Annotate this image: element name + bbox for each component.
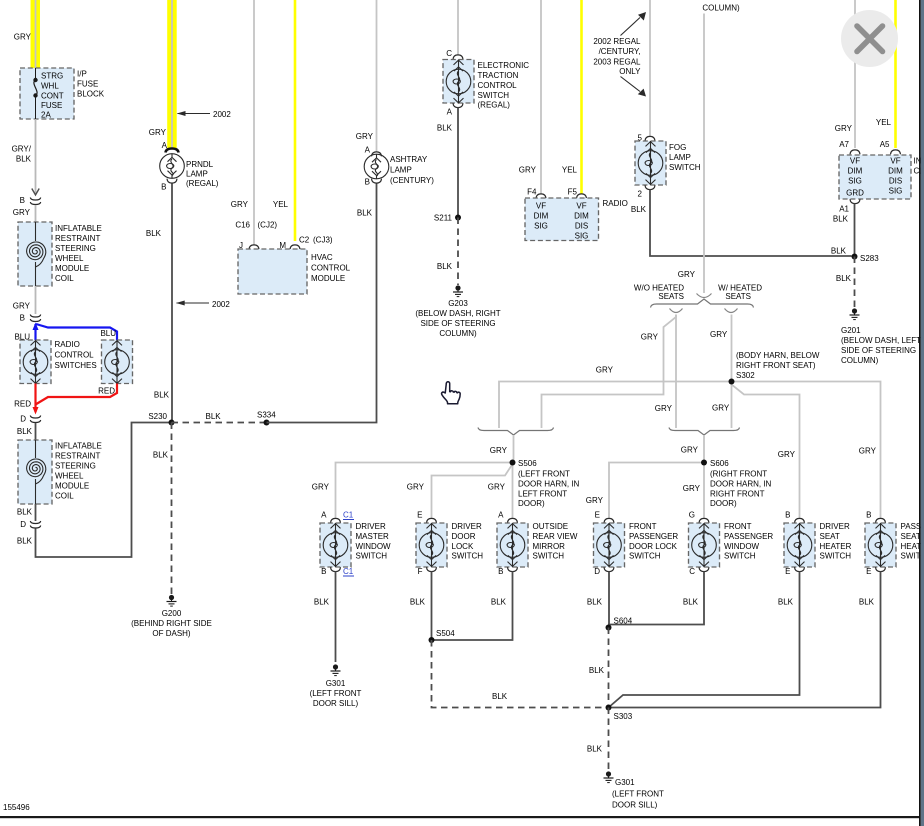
wire BLK fog switch to S283 [650, 190, 852, 257]
svg-text:G301: G301 [326, 679, 346, 688]
svg-text:BLK: BLK [357, 209, 373, 218]
svg-text:C: C [689, 567, 695, 576]
svg-text:B: B [866, 511, 871, 520]
wire GRY from top [457, 0, 459, 55]
wire GRY gather1 to S506 [513, 435, 515, 463]
svg-text:GRY: GRY [681, 446, 699, 455]
wire BLK S303 to passenger seat heater switch [609, 572, 881, 708]
svg-text:BLK: BLK [587, 598, 603, 607]
svg-text:SIDE OF STEERING: SIDE OF STEERING [420, 319, 495, 328]
wire GRY w/ heated to S302 [731, 315, 733, 382]
wire GRY S506 to mirror switch [512, 463, 514, 520]
electronic traction control switch (REGAL) [443, 60, 474, 104]
splice gather brace above S606 [669, 428, 740, 436]
branch cup W/O [670, 309, 683, 313]
svg-text:SWITCH: SWITCH [533, 552, 565, 561]
wire into coil [35, 205, 37, 222]
svg-text:BLK: BLK [859, 598, 875, 607]
svg-text:(CJ3): (CJ3) [313, 236, 333, 245]
node S506 [510, 460, 516, 466]
svg-text:WHEEL: WHEEL [55, 472, 84, 481]
inflatable restraint steering wheel module coil (lower) [18, 440, 52, 504]
svg-text:BLK: BLK [154, 391, 170, 400]
svg-text:E: E [866, 567, 871, 576]
svg-text:BLK: BLK [836, 274, 852, 283]
svg-text:155496: 155496 [3, 803, 30, 812]
right scrollbar strip [921, 0, 924, 826]
svg-text:BLK: BLK [437, 124, 453, 133]
svg-text:SWITCH: SWITCH [820, 552, 852, 561]
svg-text:SIG: SIG [575, 232, 589, 241]
wire BLK master window switch to G301 [335, 572, 337, 663]
svg-text:LAMP: LAMP [669, 153, 691, 162]
svg-text:CONTROL: CONTROL [55, 351, 95, 360]
svg-text:FUSE: FUSE [41, 101, 62, 110]
svg-text:DIM: DIM [574, 212, 589, 221]
svg-text:LAMP: LAMP [186, 170, 208, 179]
svg-text:S334: S334 [257, 411, 276, 420]
svg-text:SWITCH: SWITCH [452, 552, 484, 561]
svg-text:DRIVER: DRIVER [356, 522, 386, 531]
svg-text:GRY: GRY [13, 208, 31, 217]
svg-text:VF: VF [576, 202, 586, 211]
ashtray lamp (CENTURY) [364, 154, 389, 179]
wire GRY highlighted yellow from top [167, 0, 177, 149]
ground G201 [850, 308, 860, 319]
wire GRY from top to seats split [703, 14, 705, 294]
svg-text:(LEFT FRONT: (LEFT FRONT [518, 470, 570, 479]
svg-text:G301: G301 [615, 778, 635, 787]
svg-text:BLOCK: BLOCK [77, 90, 105, 99]
svg-text:BLK: BLK [410, 598, 426, 607]
svg-text:2002 REGAL: 2002 REGAL [593, 37, 641, 46]
wire BLK S303 to driver seat heater switch [609, 572, 800, 708]
wire BLK A1 to S283 [854, 204, 856, 257]
radio box [525, 198, 599, 241]
instrument cluster box [839, 155, 911, 199]
radio control switch 1 [20, 340, 51, 384]
2002 model arrow [178, 113, 211, 115]
svg-text:GRY: GRY [641, 333, 659, 342]
svg-text:GRY: GRY [586, 496, 604, 505]
svg-text:DIS: DIS [575, 222, 588, 231]
close button [841, 10, 898, 67]
svg-text:COIL: COIL [55, 492, 74, 501]
svg-text:I/P: I/P [77, 70, 87, 79]
svg-text:GRY: GRY [312, 483, 330, 492]
wire BLK mirror switch to S504 [432, 572, 513, 641]
wire GRY S302 to driver seat heater [732, 382, 800, 520]
wire GRY S302 to passenger seat heater [732, 382, 881, 520]
splice split brace [651, 299, 754, 308]
svg-text:GRY: GRY [859, 447, 877, 456]
wire GRY S606 to front passenger door lock switch [609, 463, 704, 520]
wire GRY from top to radio F4 [540, 0, 542, 194]
svg-text:SWITCH: SWITCH [724, 552, 756, 561]
terminal A black cap [166, 149, 179, 153]
svg-text:BLK: BLK [833, 215, 849, 224]
svg-text:G200: G200 [162, 609, 182, 618]
svg-text:COLUMN): COLUMN) [702, 4, 740, 13]
svg-text:COLUMN): COLUMN) [841, 356, 879, 365]
svg-text:(LEFT FRONT: (LEFT FRONT [310, 689, 362, 698]
svg-text:COLUMN): COLUMN) [439, 329, 477, 338]
svg-text:S302: S302 [736, 371, 755, 380]
svg-text:S504: S504 [436, 629, 455, 638]
pin A1 GRD [850, 199, 860, 203]
svg-text:2A: 2A [41, 111, 51, 120]
svg-text:VF: VF [850, 157, 860, 166]
svg-text:STRG: STRG [41, 72, 63, 81]
svg-text:BLK: BLK [17, 427, 33, 436]
svg-text:RIGHT FRONT SEAT): RIGHT FRONT SEAT) [736, 361, 816, 370]
svg-text:PRNDL: PRNDL [186, 160, 214, 169]
svg-text:RESTRAINT: RESTRAINT [55, 452, 100, 461]
branch cup W/ [725, 309, 738, 313]
wire GRY from top to HVAC [253, 0, 255, 245]
svg-text:DRIVER: DRIVER [452, 522, 482, 531]
svg-text:MIRROR: MIRROR [533, 542, 566, 551]
svg-text:(CJ2): (CJ2) [258, 221, 278, 230]
wire BLK dashed S283 to G201 [854, 257, 856, 308]
svg-text:(REGAL): (REGAL) [186, 179, 219, 188]
svg-text:BLK: BLK [631, 205, 647, 214]
svg-text:BLU: BLU [100, 329, 116, 338]
svg-text:(REGAL): (REGAL) [478, 101, 511, 110]
svg-text:ELECTRONIC: ELECTRONIC [478, 61, 530, 70]
svg-text:D: D [20, 520, 26, 529]
svg-text:BLK: BLK [16, 155, 32, 164]
svg-text:LEFT FRONT: LEFT FRONT [518, 490, 567, 499]
svg-text:DOOR HARN, IN: DOOR HARN, IN [518, 480, 580, 489]
svg-text:GRY: GRY [231, 200, 249, 209]
svg-text:MODULE: MODULE [55, 264, 89, 273]
svg-text:GRY: GRY [712, 404, 730, 413]
svg-text:GRY: GRY [488, 483, 506, 492]
svg-text:/CENTURY,: /CENTURY, [599, 47, 641, 56]
svg-text:(BELOW DASH, LEFT: (BELOW DASH, LEFT [841, 336, 921, 345]
wire GRY coil to connector B [35, 286, 37, 314]
svg-text:C2: C2 [299, 236, 310, 245]
wire GRY highlighted yellow into fuse block [31, 0, 41, 68]
svg-text:DOOR HARN, IN: DOOR HARN, IN [710, 480, 772, 489]
svg-text:2: 2 [638, 190, 643, 199]
PRNDL lamp (REGAL) [160, 154, 185, 179]
svg-text:C1: C1 [343, 567, 354, 576]
svg-text:GRY: GRY [678, 270, 696, 279]
wire GRY S302 down to gather2 [731, 382, 733, 429]
svg-text:G203: G203 [448, 299, 468, 308]
wire GRY from top [649, 0, 651, 137]
svg-text:A: A [447, 108, 453, 117]
wire GRY from top [376, 0, 378, 152]
svg-text:YEL: YEL [273, 200, 289, 209]
svg-text:C16: C16 [235, 221, 250, 230]
wire BLK front pass window to S604 [609, 572, 704, 628]
HVAC control module box [238, 249, 307, 294]
svg-text:DOOR: DOOR [452, 532, 476, 541]
svg-text:2003 REGAL: 2003 REGAL [593, 57, 641, 66]
svg-text:BLK: BLK [206, 412, 222, 421]
wire BLK PRNDL to S230 [171, 184, 173, 423]
svg-text:SWITCH: SWITCH [478, 91, 510, 100]
svg-text:GRY/: GRY/ [12, 145, 32, 154]
wire GRY S302 to gather1 left [499, 382, 732, 429]
wire GRY S506 to driver master window switch [336, 463, 514, 520]
svg-text:S604: S604 [614, 617, 633, 626]
svg-text:MASTER: MASTER [356, 532, 390, 541]
svg-text:CONTROL: CONTROL [478, 81, 518, 90]
bottom frame line [0, 816, 920, 818]
wire BLK to S211 [457, 108, 459, 218]
svg-text:ASHTRAY: ASHTRAY [390, 155, 428, 164]
I/P fuse block box [20, 68, 74, 119]
svg-text:RADIO: RADIO [55, 340, 80, 349]
svg-text:SIG: SIG [534, 222, 548, 231]
fog lamp switch [635, 141, 666, 185]
svg-text:PASSENGER: PASSENGER [629, 532, 678, 541]
wire BLK into lower coil [35, 423, 37, 440]
svg-text:B: B [785, 511, 790, 520]
wire BLK dashed S604 to S303 [608, 628, 610, 708]
svg-text:CONT: CONT [41, 92, 64, 101]
svg-text:S606: S606 [710, 459, 729, 468]
svg-text:BLK: BLK [492, 692, 508, 701]
svg-text:2002: 2002 [213, 110, 231, 119]
svg-text:BLK: BLK [314, 598, 330, 607]
svg-text:S506: S506 [518, 459, 537, 468]
node S303 [606, 705, 612, 711]
svg-text:C1: C1 [343, 511, 354, 520]
svg-text:GRY: GRY [596, 366, 614, 375]
svg-text:A: A [321, 511, 327, 520]
svg-text:GRY: GRY [149, 128, 167, 137]
pin M connector [290, 245, 300, 249]
svg-text:LOCK: LOCK [452, 542, 474, 551]
svg-text:STEERING: STEERING [55, 244, 96, 253]
svg-text:F4: F4 [527, 188, 537, 197]
wire GRY w/o heated straight to gather2 [675, 315, 677, 429]
right frame line [919, 0, 921, 826]
wire BLK front pass door lock to S604 [608, 572, 610, 628]
svg-text:(BODY HARN, BELOW: (BODY HARN, BELOW [736, 351, 820, 360]
node S606 [701, 460, 707, 466]
fuse STRG WHL CONT FUSE 2A [34, 68, 37, 119]
svg-text:S303: S303 [614, 712, 633, 721]
svg-text:RED: RED [98, 387, 115, 396]
svg-text:GRY: GRY [356, 132, 374, 141]
wire BLK dashed S504 to S303 [432, 640, 606, 708]
svg-text:PASSENGER: PASSENGER [724, 532, 773, 541]
svg-text:BLK: BLK [17, 537, 33, 546]
wire GRY from top to A7 [854, 0, 856, 148]
svg-text:C: C [446, 49, 452, 58]
svg-text:INFLATABLE: INFLATABLE [55, 224, 102, 233]
svg-text:SEATS: SEATS [658, 292, 684, 301]
svg-text:D: D [20, 415, 26, 424]
ground G301 left [331, 664, 341, 675]
svg-text:2002: 2002 [212, 300, 230, 309]
svg-text:SIG: SIG [848, 177, 862, 186]
svg-text:RADIO: RADIO [603, 199, 628, 208]
svg-text:GRD: GRD [846, 189, 864, 198]
svg-text:GRY: GRY [14, 33, 32, 42]
svg-text:S283: S283 [860, 254, 879, 263]
svg-text:SWITCH: SWITCH [629, 552, 661, 561]
svg-text:COIL: COIL [55, 274, 74, 283]
svg-text:BLK: BLK [683, 598, 699, 607]
wire BLK coil to connector D [35, 504, 37, 521]
svg-text:GRY: GRY [407, 483, 425, 492]
svg-text:GRY: GRY [490, 446, 508, 455]
wire BLK dashed S230 to G200 [171, 423, 173, 595]
svg-text:G: G [689, 511, 695, 520]
mouse cursor [442, 382, 461, 404]
wire GRY/BLK from fuse to connector B [35, 119, 37, 194]
svg-text:SIG: SIG [889, 187, 903, 196]
wire BLK door lock switch to S504 [431, 572, 433, 641]
svg-text:YEL: YEL [562, 166, 578, 175]
svg-text:BLK: BLK [589, 666, 605, 675]
wire GRY w/o heated branch to gather1 [542, 315, 677, 429]
svg-text:GRY: GRY [835, 124, 853, 133]
svg-text:E: E [595, 511, 600, 520]
svg-text:SEATS: SEATS [725, 292, 751, 301]
svg-text:DOOR): DOOR) [710, 499, 737, 508]
svg-text:GRY: GRY [683, 484, 701, 493]
svg-text:LAMP: LAMP [390, 166, 412, 175]
wire BLK dashed S211 to G203 [457, 218, 459, 286]
svg-text:VF: VF [890, 157, 900, 166]
svg-text:FRONT: FRONT [629, 522, 657, 531]
svg-text:DIM: DIM [848, 167, 863, 176]
svg-text:B: B [365, 178, 370, 187]
svg-text:WHEEL: WHEEL [55, 254, 84, 263]
svg-text:MODULE: MODULE [55, 482, 89, 491]
svg-text:RIGHT FRONT: RIGHT FRONT [710, 490, 765, 499]
svg-text:DRIVER: DRIVER [820, 522, 850, 531]
svg-text:REAR VIEW: REAR VIEW [533, 532, 578, 541]
wire BLK S334 to ashtray lamp [267, 183, 377, 423]
svg-text:MODULE: MODULE [311, 274, 345, 283]
svg-text:ONLY: ONLY [619, 67, 641, 76]
wire BLU traced blue to radio control switches [36, 324, 118, 340]
svg-text:S211: S211 [434, 214, 453, 223]
svg-text:B: B [321, 567, 326, 576]
svg-text:E: E [785, 567, 790, 576]
svg-text:(BEHIND RIGHT SIDE: (BEHIND RIGHT SIDE [131, 619, 212, 628]
wire GRY S606 to front passenger window switch [703, 463, 705, 520]
svg-text:SEAT: SEAT [901, 532, 921, 541]
wire end cup [697, 294, 712, 298]
svg-text:YEL: YEL [876, 118, 892, 127]
svg-text:(RIGHT FRONT: (RIGHT FRONT [710, 470, 767, 479]
ground G301 right [604, 771, 614, 782]
svg-text:WINDOW: WINDOW [724, 542, 760, 551]
svg-text:GRY: GRY [778, 450, 796, 459]
svg-text:A7: A7 [839, 140, 849, 149]
svg-text:SWITCH: SWITCH [669, 163, 701, 172]
svg-text:DIS: DIS [889, 177, 902, 186]
svg-text:(BELOW DASH, RIGHT: (BELOW DASH, RIGHT [415, 309, 500, 318]
svg-text:A1: A1 [839, 205, 849, 214]
svg-text:A: A [365, 146, 371, 155]
svg-text:OUTSIDE: OUTSIDE [533, 522, 569, 531]
ground G200 [167, 595, 177, 606]
svg-text:SWITCH: SWITCH [356, 552, 388, 561]
svg-text:(CENTURY): (CENTURY) [390, 176, 434, 185]
svg-text:BLK: BLK [146, 229, 162, 238]
svg-text:FUSE: FUSE [77, 80, 98, 89]
pin J connector [249, 245, 259, 249]
svg-text:B: B [498, 567, 503, 576]
svg-text:WINDOW: WINDOW [356, 542, 392, 551]
svg-text:A5: A5 [880, 140, 890, 149]
svg-text:B: B [20, 314, 25, 323]
svg-text:HEATER: HEATER [820, 542, 852, 551]
svg-text:SIDE OF STEERING: SIDE OF STEERING [841, 346, 916, 355]
svg-text:RESTRAINT: RESTRAINT [55, 234, 100, 243]
wire GRY S506 to driver door lock switch [432, 464, 513, 519]
svg-text:DOOR): DOOR) [518, 499, 545, 508]
svg-text:GRY: GRY [519, 166, 537, 175]
svg-text:BLK: BLK [587, 745, 603, 754]
svg-text:BLK: BLK [17, 508, 33, 517]
ground G203 [453, 285, 463, 296]
svg-text:GRY: GRY [710, 330, 728, 339]
wire BLK coil D to S230 [36, 423, 172, 558]
wire BLK dashed S230 to S334 [172, 422, 267, 424]
radio control switch 2 [102, 340, 133, 384]
svg-text:SEAT: SEAT [820, 532, 840, 541]
svg-text:INFLATABLE: INFLATABLE [55, 442, 102, 451]
svg-text:B: B [161, 183, 166, 192]
svg-text:GRY: GRY [655, 404, 673, 413]
svg-text:D: D [594, 567, 600, 576]
svg-text:RED: RED [14, 400, 31, 409]
svg-text:GRY: GRY [13, 302, 31, 311]
svg-text:CONTROL: CONTROL [311, 264, 351, 273]
svg-text:BLK: BLK [778, 598, 794, 607]
wire BLK dashed S303 to G301 [608, 708, 610, 771]
svg-text:TRACTION: TRACTION [478, 71, 519, 80]
svg-text:F5: F5 [568, 188, 578, 197]
svg-text:DOOR SILL): DOOR SILL) [313, 699, 359, 708]
svg-text:G201: G201 [841, 326, 861, 335]
wire RED traced red from switches to connector D [36, 384, 118, 413]
node S283 [852, 254, 858, 260]
svg-text:B: B [20, 196, 25, 205]
wire YEL from top to HVAC [294, 0, 297, 241]
svg-text:BLK: BLK [831, 247, 847, 256]
2002 model arrow lower [177, 302, 210, 304]
svg-text:OF DASH): OF DASH) [152, 629, 191, 638]
splice gather brace above S506 [478, 428, 554, 436]
svg-text:FRONT: FRONT [724, 522, 752, 531]
svg-text:VF: VF [536, 202, 546, 211]
wire YEL from top to radio F5 [580, 0, 583, 194]
svg-text:A: A [498, 511, 504, 520]
svg-text:DOOR LOCK: DOOR LOCK [629, 542, 678, 551]
svg-text:STEERING: STEERING [55, 462, 96, 471]
wire GRY gather2 to S606 [703, 435, 705, 463]
svg-text:FOG: FOG [669, 143, 686, 152]
svg-text:DOOR SILL): DOOR SILL) [612, 801, 658, 810]
inflatable restraint steering wheel module coil (upper) [18, 222, 52, 286]
svg-text:WHL: WHL [41, 82, 59, 91]
svg-text:DIM: DIM [534, 212, 549, 221]
svg-text:HVAC: HVAC [311, 253, 333, 262]
